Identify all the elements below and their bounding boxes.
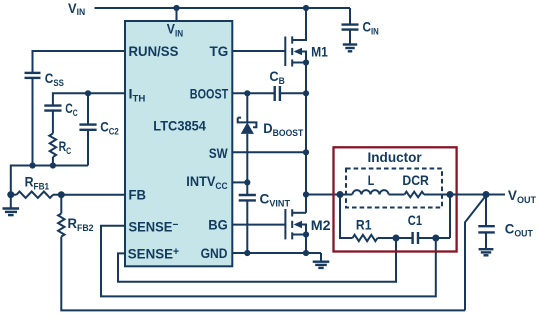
svg-text:LTC3854: LTC3854 [153, 118, 206, 134]
junction inductor left node [337, 191, 344, 198]
pin BG label [208, 216, 228, 232]
junction VIN rail / IC VIN pin [173, 5, 179, 11]
svg-text:RUN/SS: RUN/SS [129, 43, 179, 59]
junction GND / CVINT [244, 250, 250, 256]
wire RFB2 to bottom rail (VOUT sense) [61, 237, 465, 311]
capacitor C1 [413, 232, 418, 244]
svg-text:FB: FB [129, 186, 147, 202]
wire VIN top rail [95, 7, 351, 9]
wire INTVCC pin [232, 181, 247, 183]
junction SW / M1-M2 leg [303, 149, 309, 155]
label RFB1 [25, 174, 49, 192]
capacitor CC2 [79, 93, 96, 165]
label CIN [363, 19, 380, 37]
label DBOOST [263, 120, 303, 138]
resistor RC [49, 134, 56, 158]
junction ITH / CC2 [85, 90, 91, 96]
svg-text:DCR: DCR [402, 172, 429, 188]
wire RUN/SS to CSS [33, 51, 126, 72]
wire ITH pin [53, 93, 125, 105]
resistor DCR [405, 192, 425, 198]
capacitor CVINT [239, 182, 256, 253]
ground FB divider [3, 195, 20, 216]
svg-text:BOOST: BOOST [190, 85, 229, 101]
wire VOUT feedback diagonal [465, 196, 486, 311]
transistor M2 [285, 209, 306, 239]
svg-text:BG: BG [208, 216, 228, 232]
svg-text:M2: M2 [311, 217, 331, 233]
label R1 [356, 216, 372, 232]
transistor M1 [285, 8, 306, 67]
wire compensation bottom node [11, 166, 88, 195]
label CVINT [260, 191, 291, 209]
wire M1 source to SW node [305, 63, 307, 213]
label CB [269, 68, 285, 86]
wire FB pin [61, 194, 125, 196]
junction SW leg / inductor branch [303, 191, 309, 197]
wire SW pin [232, 151, 306, 153]
wire DCR to right node [424, 194, 486, 196]
svg-text:R1: R1 [356, 216, 372, 232]
node VOUT wire [486, 194, 505, 196]
pin FB label [129, 186, 147, 202]
ground CIN [343, 45, 357, 52]
label C1 [408, 212, 422, 228]
wire R1C1 branch right riser [449, 195, 451, 239]
svg-text:M1: M1 [311, 44, 328, 60]
capacitor CIN [342, 8, 359, 44]
wire BG to M2 gate [232, 224, 285, 226]
wire R1 to C1 [378, 237, 413, 239]
inductor model red box [334, 147, 457, 251]
wire SW node to inductor [306, 194, 352, 196]
wire coil to DCR [389, 194, 405, 196]
junction RC / bottom node [50, 162, 56, 168]
junction VIN rail / M1 drain [303, 5, 309, 11]
svg-text:C1: C1 [408, 212, 422, 228]
label M1 [311, 44, 328, 60]
wire BOOST pin [232, 92, 274, 94]
label L [368, 172, 375, 188]
label CC2 [100, 119, 119, 137]
label DCR [402, 172, 429, 188]
svg-text:SENSE−: SENSE− [129, 218, 179, 234]
ground power GND [313, 253, 330, 268]
wire M2 source to GND line [305, 235, 307, 254]
wire GND pin [232, 252, 321, 254]
capacitor CC [44, 106, 61, 134]
svg-text:L: L [368, 172, 375, 188]
wire IC VIN pin stub [176, 8, 178, 21]
resistor RFB1 [11, 192, 62, 198]
wire SENSE+ [118, 238, 396, 282]
svg-text:Inductor: Inductor [368, 149, 423, 165]
label CC [65, 100, 78, 118]
pin INTVCC label [186, 173, 228, 191]
junction FB divider ground node [7, 191, 14, 198]
pin SW label [209, 145, 228, 161]
svg-text:TG: TG [210, 43, 229, 59]
svg-text:SENSE+: SENSE+ [128, 246, 179, 262]
label RC [59, 138, 72, 156]
IC U1 LTC3854 body [125, 21, 232, 266]
junction M1 source [303, 59, 309, 65]
node VOUT label [508, 187, 536, 205]
capacitor CSS [25, 73, 41, 78]
label RFB2 [68, 215, 94, 233]
junction CB / M1 source leg [303, 90, 309, 96]
diode DBOOST [238, 93, 257, 182]
wire SENSE- [101, 226, 436, 297]
capacitor CB [275, 86, 306, 101]
pin VIN label (IC top) [167, 21, 184, 39]
label COUT [505, 220, 533, 238]
resistor RFB2 [58, 195, 64, 237]
svg-text:SW: SW [209, 145, 228, 161]
IC name label LTC3854 [153, 118, 206, 134]
label CSS [45, 70, 64, 88]
svg-text:GND: GND [201, 245, 228, 261]
pin GND label [201, 245, 228, 261]
wire TG to M1 gate [232, 50, 285, 52]
wire R1 branch left [340, 195, 353, 239]
pin TG label [210, 43, 229, 59]
label Inductor [368, 149, 423, 165]
resistor R1 [353, 235, 378, 241]
junction VOUT / COUT [483, 191, 490, 198]
ground COUT [479, 249, 494, 255]
junction R1-C1 sense tap [393, 235, 400, 242]
pin RUN/SS label [129, 43, 179, 59]
pin SENSE+ label [128, 246, 179, 262]
capacitor COUT [478, 195, 495, 250]
junction inductor right node [447, 191, 454, 198]
junction FB / RFB2 [58, 191, 65, 198]
wire CSS to bottom node [32, 78, 34, 166]
label M2 [311, 217, 331, 233]
junction M2 source [303, 231, 309, 237]
pin BOOST label [190, 85, 229, 101]
junction CSS / bottom node [29, 162, 35, 168]
wire C1 right to branch [418, 237, 450, 239]
node VIN label [68, 0, 85, 17]
junction INTVCC / DBOOST / CVINT [244, 179, 250, 185]
pin SENSE- label [129, 218, 179, 234]
junction BOOST / DBOOST [244, 90, 250, 96]
junction GND / M2 source [303, 250, 309, 256]
inductor L coil [352, 190, 388, 194]
wire RC to bottom node [52, 157, 54, 166]
junction C1 right node [432, 235, 439, 242]
dashed box inductor model [346, 169, 442, 208]
pin ITH label [129, 85, 146, 103]
